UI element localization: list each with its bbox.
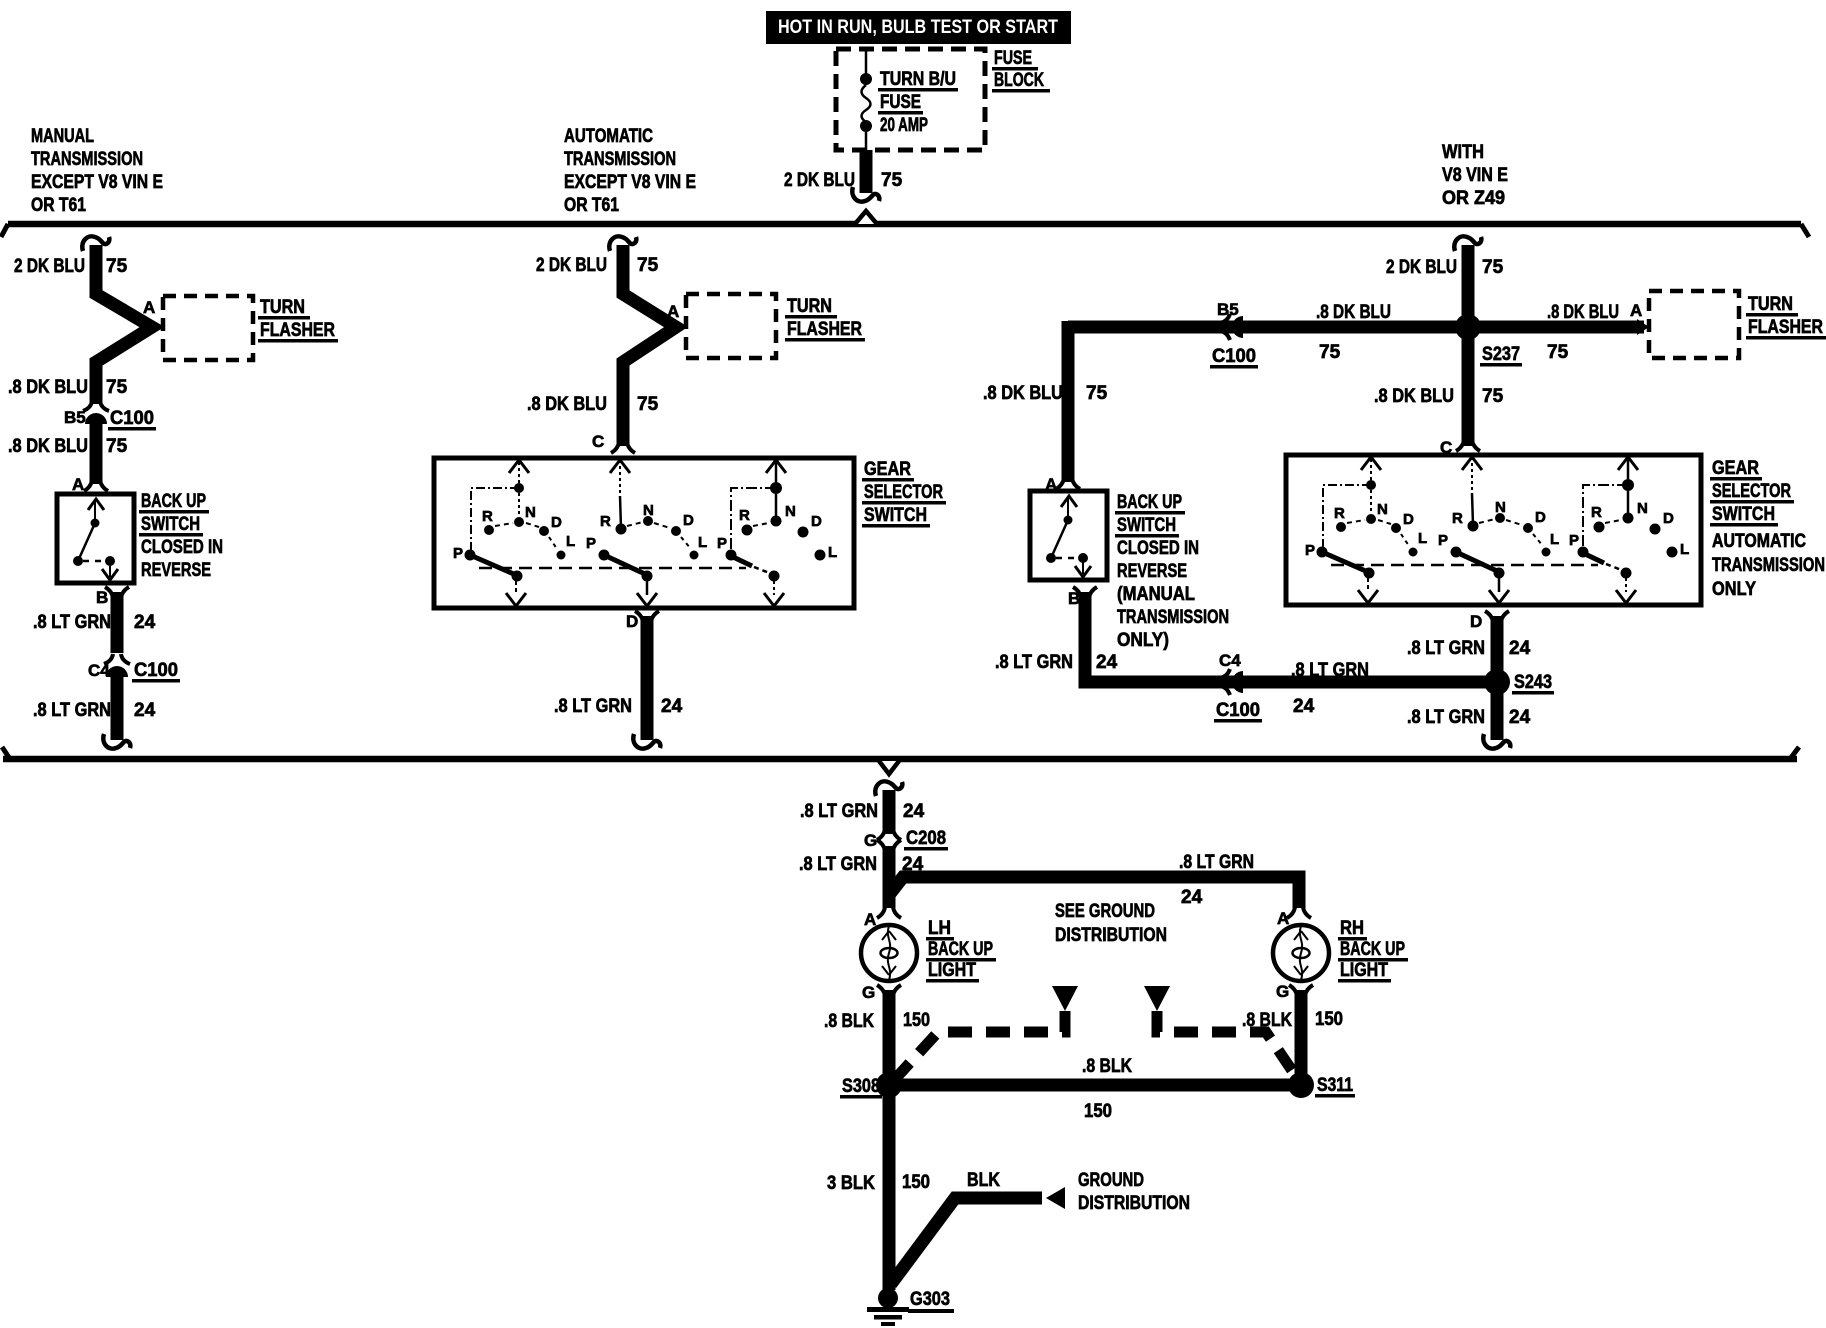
ground G303 xyxy=(867,1288,909,1326)
svg-text:.8 LT GRN: .8 LT GRN xyxy=(554,696,632,717)
ground distribution triangle (right) xyxy=(1144,986,1170,1011)
label .8 DK BLU 75 (below S237) xyxy=(1374,386,1504,407)
svg-text:TURN: TURN xyxy=(787,296,832,317)
svg-text:GROUND: GROUND xyxy=(1078,1170,1144,1191)
svg-text:LH: LH xyxy=(928,918,951,939)
svg-text:FLASHER: FLASHER xyxy=(1748,317,1823,338)
label .8 DK BLU 75 (left lower) xyxy=(8,436,128,457)
svg-text:.8 LT GRN: .8 LT GRN xyxy=(33,700,111,721)
banner HOT IN RUN, BULB TEST OR START xyxy=(766,11,1071,44)
wire .8 LT GRN 24 (left upper) xyxy=(111,592,124,653)
svg-text:FUSE: FUSE xyxy=(994,48,1032,69)
fuse TURN B/U 20 AMP xyxy=(860,51,872,150)
terminal flare into RH light xyxy=(1287,907,1311,918)
svg-text:.8 LT GRN: .8 LT GRN xyxy=(33,612,111,633)
label .8 LT GRN 24 (branch) xyxy=(1179,852,1254,908)
label B5 C100 (right) xyxy=(1210,300,1258,369)
svg-text:2 DK BLU: 2 DK BLU xyxy=(1386,257,1457,278)
svg-text:G: G xyxy=(864,831,877,850)
splice S237 xyxy=(1455,314,1481,340)
label .8 LT GRN 24 (below C208) xyxy=(799,854,924,875)
svg-text:.8 LT GRN: .8 LT GRN xyxy=(800,801,878,822)
wire .8 BLK 150 between S308 and S311 xyxy=(889,1079,1301,1092)
svg-text:G303: G303 xyxy=(910,1289,950,1310)
label 2 DK BLU 75 (right) xyxy=(1386,257,1504,278)
svg-text:75: 75 xyxy=(1482,386,1504,407)
svg-text:75: 75 xyxy=(1086,383,1108,404)
svg-text:WITH: WITH xyxy=(1442,142,1484,163)
svg-text:.8 LT GRN: .8 LT GRN xyxy=(995,652,1073,673)
svg-text:G: G xyxy=(1276,982,1289,1001)
svg-text:BLOCK: BLOCK xyxy=(994,70,1044,91)
label B5 C100 (left) xyxy=(64,408,156,431)
svg-text:BACK UP: BACK UP xyxy=(141,491,206,512)
svg-text:24: 24 xyxy=(1293,696,1315,717)
svg-text:A: A xyxy=(864,910,876,929)
svg-text:75: 75 xyxy=(106,377,128,398)
svg-text:EXCEPT V8 VIN E: EXCEPT V8 VIN E xyxy=(31,172,163,193)
svg-text:A: A xyxy=(667,302,679,321)
label GROUND DISTRIBUTION (bottom) xyxy=(1078,1170,1190,1214)
terminal cup below switch (left) xyxy=(105,587,129,598)
gear selector switch contacts (middle) xyxy=(453,460,837,606)
svg-text:OR T61: OR T61 xyxy=(564,195,619,216)
terminal flare into back up switch (left) xyxy=(84,480,108,491)
svg-text:.8 DK BLU: .8 DK BLU xyxy=(527,394,607,415)
svg-text:HOT IN RUN, BULB TEST OR START: HOT IN RUN, BULB TEST OR START xyxy=(778,17,1058,38)
label .8 LT GRN 24 (above S243) xyxy=(1407,638,1531,659)
splice S311 xyxy=(1288,1072,1314,1098)
svg-text:D: D xyxy=(626,612,638,631)
svg-text:A: A xyxy=(72,475,84,494)
wire 3 BLK 150 to ground xyxy=(883,1085,896,1290)
label BACK UP SWITCH CLOSED IN REVERSE (left) xyxy=(139,491,223,581)
svg-text:TURN B/U: TURN B/U xyxy=(880,69,956,90)
label TURN FLASHER (left) xyxy=(258,297,338,343)
svg-text:REVERSE: REVERSE xyxy=(1117,561,1187,582)
label BACK UP SWITCH CLOSED IN REVERSE MANUAL TRANSMISSION ONLY xyxy=(1115,492,1229,651)
wire .8 DK BLU 75 (left lower) xyxy=(90,422,103,484)
svg-text:C100: C100 xyxy=(134,660,178,681)
wire break curl below bus (center) xyxy=(875,781,902,796)
svg-text:OR Z49: OR Z49 xyxy=(1442,188,1505,209)
svg-text:RH: RH xyxy=(1340,918,1364,939)
svg-text:24: 24 xyxy=(1096,652,1118,673)
label .8 DK BLU 75 (left upper) xyxy=(8,377,128,398)
splice S308 xyxy=(876,1072,902,1098)
wire .8 LT GRN 24 elbow to S243 xyxy=(1085,592,1490,682)
svg-text:.8 DK BLU: .8 DK BLU xyxy=(983,383,1063,404)
svg-text:.8 LT GRN: .8 LT GRN xyxy=(1407,707,1485,728)
connector C100 B5 (right horizontal) xyxy=(1220,314,1243,340)
terminal cup below switch (right) xyxy=(1073,587,1097,598)
gear selector switch box (right) xyxy=(1286,455,1701,605)
label .8 LT GRN 24 (left upper) xyxy=(33,612,156,633)
svg-text:D: D xyxy=(1470,612,1482,631)
svg-text:.8 LT GRN: .8 LT GRN xyxy=(799,854,877,875)
svg-text:C4: C4 xyxy=(1219,651,1241,670)
svg-text:FLASHER: FLASHER xyxy=(260,320,335,341)
svg-text:BLK: BLK xyxy=(967,1170,1000,1191)
svg-text:C100: C100 xyxy=(110,408,154,429)
svg-text:.8 LT GRN: .8 LT GRN xyxy=(1407,638,1485,659)
wire 2 DK BLU 75 (middle) xyxy=(623,245,676,446)
label .8 DK BLU 75 (above horizontal) xyxy=(1316,302,1391,363)
dashed ground lead from triangle to S311 xyxy=(1157,1011,1293,1072)
wire break curl to bottom bus (middle) xyxy=(633,734,660,749)
terminal flare into back up switch (right) xyxy=(1056,478,1080,489)
svg-text:SEE GROUND: SEE GROUND xyxy=(1055,901,1155,922)
svg-text:S237: S237 xyxy=(1482,344,1520,365)
svg-text:24: 24 xyxy=(661,696,683,717)
svg-text:75: 75 xyxy=(637,255,659,276)
svg-text:S311: S311 xyxy=(1317,1075,1353,1096)
svg-text:FLASHER: FLASHER xyxy=(787,319,862,340)
terminal cup at gear selector C (right) xyxy=(1456,440,1480,451)
svg-text:.8 DK BLU: .8 DK BLU xyxy=(8,377,88,398)
wire .8 LT GRN 24 (left lower) xyxy=(111,677,124,740)
connector C100 C4 (right horizontal) xyxy=(1220,669,1243,695)
svg-text:C100: C100 xyxy=(1216,700,1260,721)
label .8 DK BLU 75 (middle) xyxy=(527,394,659,415)
header MANUAL TRANSMISSION EXCEPT V8 VIN E OR T61 xyxy=(31,126,163,216)
label .8 LT GRN 24 (right switch lower) xyxy=(995,652,1118,673)
svg-text:3 BLK: 3 BLK xyxy=(827,1173,875,1194)
svg-text:24: 24 xyxy=(903,801,925,822)
svg-text:.8 BLK: .8 BLK xyxy=(1082,1056,1132,1077)
svg-text:ONLY): ONLY) xyxy=(1117,630,1169,651)
wire .8 LT GRN 24 to C208 xyxy=(883,790,896,834)
connector C100 B5 (left) xyxy=(83,401,109,424)
svg-text:B5: B5 xyxy=(64,408,86,427)
svg-text:BACK UP: BACK UP xyxy=(1117,492,1182,513)
label FUSE BLOCK xyxy=(992,48,1050,93)
svg-text:.8 DK BLU: .8 DK BLU xyxy=(1316,302,1391,323)
svg-text:.8 DK BLU: .8 DK BLU xyxy=(1374,386,1454,407)
svg-text:.8 LT GRN: .8 LT GRN xyxy=(1179,852,1254,873)
turn flasher dashed box (left) xyxy=(163,296,253,360)
terminal A arrow into turn flasher (middle) xyxy=(674,319,686,335)
label .8 LT GRN 24 (above C208) xyxy=(800,801,925,822)
back up switch contacts (right) xyxy=(1046,496,1091,577)
label G C208 xyxy=(864,828,948,851)
svg-text:75: 75 xyxy=(1319,342,1341,363)
label .8 LT GRN 24 (left lower) xyxy=(33,700,156,721)
back up switch box (right) xyxy=(1030,491,1107,580)
svg-text:20 AMP: 20 AMP xyxy=(880,115,928,136)
bottom bus wire xyxy=(2,747,1799,774)
svg-text:.8 DK BLU: .8 DK BLU xyxy=(1547,302,1619,323)
svg-text:2 DK BLU: 2 DK BLU xyxy=(784,170,855,191)
svg-text:TRANSMISSION: TRANSMISSION xyxy=(31,149,143,170)
wire .8 DK BLU horizontal through S237 xyxy=(1068,321,1644,334)
svg-text:.8 DK BLU: .8 DK BLU xyxy=(8,436,88,457)
svg-text:FUSE: FUSE xyxy=(880,92,921,113)
svg-text:150: 150 xyxy=(1084,1101,1112,1122)
svg-text:75: 75 xyxy=(881,170,903,191)
ground distribution triangle (left) xyxy=(1052,986,1078,1011)
terminal A arrow into turn flasher (left) xyxy=(150,319,163,335)
LH back up light lamp xyxy=(861,925,917,981)
wire 2 DK BLU 75 from fuse to bus xyxy=(860,150,873,193)
svg-text:S308: S308 xyxy=(842,1076,880,1097)
svg-text:75: 75 xyxy=(1482,257,1504,278)
label TURN FLASHER (right) xyxy=(1746,294,1826,340)
svg-text:TURN: TURN xyxy=(260,297,305,318)
label S243 xyxy=(1512,672,1554,695)
label C4 C100 (left) xyxy=(88,660,180,683)
svg-text:A: A xyxy=(143,298,155,317)
svg-text:C4: C4 xyxy=(88,661,110,680)
label 3 BLK 150 xyxy=(827,1172,930,1194)
label .8 BLK 150 (LH) xyxy=(824,1010,930,1032)
svg-text:AUTOMATIC: AUTOMATIC xyxy=(564,126,653,147)
svg-text:CLOSED IN: CLOSED IN xyxy=(1117,538,1199,559)
label S308 xyxy=(840,1076,882,1099)
terminal cup below LH light xyxy=(877,985,901,996)
label .8 LT GRN 24 (before S243) xyxy=(1291,660,1369,717)
svg-text:G: G xyxy=(862,983,875,1002)
svg-text:SWITCH: SWITCH xyxy=(1117,515,1176,536)
svg-text:B: B xyxy=(96,588,108,607)
terminal flare into LH light xyxy=(877,907,901,918)
svg-text:75: 75 xyxy=(1547,342,1569,363)
svg-text:GEAR: GEAR xyxy=(1712,458,1759,479)
svg-text:REVERSE: REVERSE xyxy=(141,560,211,581)
wire BLK branch to ground distribution xyxy=(891,1198,1042,1284)
wire .8 DK BLU down to back up switch (right) xyxy=(1062,321,1075,482)
svg-text:EXCEPT V8 VIN E: EXCEPT V8 VIN E xyxy=(564,172,696,193)
label RH BACK UP LIGHT xyxy=(1338,918,1408,983)
label TURN FLASHER (middle) xyxy=(785,296,865,342)
svg-text:TRANSMISSION: TRANSMISSION xyxy=(1117,607,1229,628)
label .8 DK BLU 75 (left branch) xyxy=(983,383,1108,404)
wire break curl to bottom bus (right) xyxy=(1483,734,1510,749)
terminal cup at gear selector C (middle) xyxy=(611,442,635,453)
dashed ground lead from triangle to S308 xyxy=(896,1011,1065,1078)
svg-text:(MANUAL: (MANUAL xyxy=(1117,584,1195,605)
wire break curl from bus (middle) xyxy=(609,236,636,251)
svg-text:SELECTOR: SELECTOR xyxy=(864,482,943,503)
svg-text:SWITCH: SWITCH xyxy=(1712,504,1775,525)
svg-text:SELECTOR: SELECTOR xyxy=(1712,481,1791,502)
svg-text:24: 24 xyxy=(1509,638,1531,659)
label .8 LT GRN 24 (middle) xyxy=(554,696,683,717)
svg-text:2 DK BLU: 2 DK BLU xyxy=(14,256,85,277)
label 2 DK BLU 75 (middle) xyxy=(536,255,659,276)
svg-text:24: 24 xyxy=(134,700,156,721)
svg-text:GEAR: GEAR xyxy=(864,459,911,480)
svg-text:75: 75 xyxy=(637,394,659,415)
wire .8 LT GRN 24 through S243 xyxy=(1491,616,1504,740)
wire branch to RH light .8 LT GRN 24 xyxy=(889,877,1299,908)
wire break curl from bus (right) xyxy=(1454,236,1481,251)
wire .8 LT GRN down to LH light xyxy=(883,846,896,908)
terminal cup below gear selector D (middle) xyxy=(635,611,659,622)
wire 2 DK BLU 75 vertical (right) xyxy=(1462,245,1475,446)
svg-text:LIGHT: LIGHT xyxy=(928,960,976,981)
svg-text:2 DK BLU: 2 DK BLU xyxy=(536,255,607,276)
wire break curl to bottom bus (left) xyxy=(103,734,130,749)
label S237 xyxy=(1480,344,1522,367)
svg-text:.8 LT GRN: .8 LT GRN xyxy=(1291,660,1369,681)
header AUTOMATIC TRANSMISSION EXCEPT V8 VIN E OR T61 xyxy=(564,126,696,216)
top bus wire xyxy=(1,211,1809,237)
label SEE GROUND DISTRIBUTION xyxy=(1055,901,1167,946)
fuse block dashed box xyxy=(836,49,985,150)
svg-text:SWITCH: SWITCH xyxy=(141,514,200,535)
wire .8 BLK 150 (LH) xyxy=(883,990,896,1085)
svg-text:TRANSMISSION: TRANSMISSION xyxy=(564,149,676,170)
turn flasher dashed box (middle) xyxy=(686,294,776,358)
label GEAR SELECTOR SWITCH AUTOMATIC TRANSMISSION ONLY xyxy=(1710,458,1825,600)
svg-text:150: 150 xyxy=(903,1010,930,1031)
svg-text:C100: C100 xyxy=(1212,346,1256,367)
svg-text:ONLY: ONLY xyxy=(1712,579,1756,600)
svg-text:DISTRIBUTION: DISTRIBUTION xyxy=(1078,1193,1190,1214)
svg-text:MANUAL: MANUAL xyxy=(31,126,94,147)
svg-text:75: 75 xyxy=(106,256,128,277)
wire break curl at bus entry xyxy=(852,187,879,202)
connector C100 C4 (left) xyxy=(104,654,130,677)
RH back up light lamp xyxy=(1273,925,1329,981)
wire 2 DK BLU 75 (left) xyxy=(96,245,152,404)
svg-text:24: 24 xyxy=(134,612,156,633)
svg-text:TURN: TURN xyxy=(1748,294,1793,315)
svg-text:150: 150 xyxy=(1315,1009,1343,1030)
svg-text:OR T61: OR T61 xyxy=(31,195,86,216)
fuse label TURN B/U FUSE 20 AMP xyxy=(878,69,958,136)
svg-text:A: A xyxy=(1630,301,1642,320)
svg-text:24: 24 xyxy=(1181,887,1203,908)
wire .8 LT GRN 24 (middle) xyxy=(641,616,654,740)
turn flasher dashed box (right) xyxy=(1649,291,1739,358)
svg-text:.8 BLK: .8 BLK xyxy=(824,1011,874,1032)
label C4 C100 (right) xyxy=(1214,651,1262,723)
svg-text:SWITCH: SWITCH xyxy=(864,505,927,526)
svg-text:BACK UP: BACK UP xyxy=(1340,939,1405,960)
svg-text:DISTRIBUTION: DISTRIBUTION xyxy=(1055,925,1167,946)
gear selector switch contacts (right) xyxy=(1305,457,1689,603)
svg-text:75: 75 xyxy=(106,436,128,457)
terminal A arrow into turn flasher (right) xyxy=(1637,319,1649,335)
label G303 xyxy=(908,1289,954,1313)
svg-text:150: 150 xyxy=(902,1172,930,1193)
label .8 LT GRN 24 (below S243) xyxy=(1407,707,1531,728)
svg-text:C208: C208 xyxy=(906,828,946,849)
gear selector switch box (middle) xyxy=(434,458,854,608)
svg-text:BACK UP: BACK UP xyxy=(928,939,993,960)
connector C208 xyxy=(877,829,901,840)
wire break curl from bus (left) xyxy=(82,236,109,251)
header WITH V8 VIN E OR Z49 xyxy=(1442,142,1508,209)
label 2 DK BLU 75 (left) xyxy=(14,256,128,277)
svg-text:V8 VIN E: V8 VIN E xyxy=(1442,165,1508,186)
back up switch box (left) xyxy=(57,494,134,583)
label LH BACK UP LIGHT xyxy=(926,918,996,983)
terminal cup below gear selector D (right) xyxy=(1485,611,1509,622)
svg-text:C: C xyxy=(592,432,604,451)
splice S243 xyxy=(1484,669,1510,695)
svg-text:TRANSMISSION: TRANSMISSION xyxy=(1712,555,1825,576)
label S311 xyxy=(1315,1075,1355,1098)
svg-text:24: 24 xyxy=(1509,707,1531,728)
off page arrow to ground distribution xyxy=(1046,1187,1065,1209)
svg-text:B5: B5 xyxy=(1217,300,1239,319)
label GEAR SELECTOR SWITCH (middle) xyxy=(862,459,946,528)
svg-text:CLOSED IN: CLOSED IN xyxy=(141,537,223,558)
back up switch contacts (left) xyxy=(73,499,118,580)
label .8 BLK 150 (between splices) xyxy=(1082,1056,1132,1122)
svg-text:AUTOMATIC: AUTOMATIC xyxy=(1712,531,1806,552)
svg-text:S243: S243 xyxy=(1514,672,1552,693)
label 2 DK BLU 75 xyxy=(784,170,903,191)
svg-text:LIGHT: LIGHT xyxy=(1340,960,1388,981)
label .8 DK BLU 75 (right of S237) xyxy=(1547,302,1619,363)
label .8 BLK 150 (RH) xyxy=(1242,1009,1343,1031)
wire .8 BLK 150 (RH) xyxy=(1295,990,1308,1085)
terminal cup below RH light xyxy=(1289,985,1313,996)
